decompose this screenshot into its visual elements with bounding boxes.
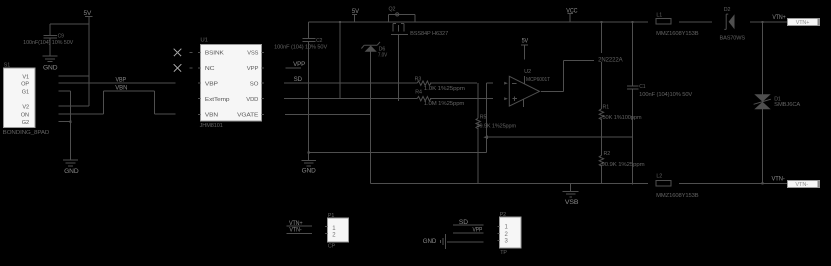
svg-text:50K 1%100ppm: 50K 1%100ppm <box>603 115 643 121</box>
svg-text:CP: CP <box>328 244 336 250</box>
svg-text:VTN-: VTN- <box>289 227 301 233</box>
svg-text:VBN: VBN <box>115 86 127 92</box>
svg-text:S1: S1 <box>4 62 10 68</box>
svg-text:1.0K 1%25ppm: 1.0K 1%25ppm <box>424 86 466 92</box>
svg-text:VBP: VBP <box>116 78 127 84</box>
svg-text:C9: C9 <box>58 34 65 40</box>
svg-text:MMZ1608Y153B: MMZ1608Y153B <box>656 31 699 37</box>
svg-text:BONDING_8PAD: BONDING_8PAD <box>3 130 50 136</box>
svg-text:BAS70WS: BAS70WS <box>720 36 746 42</box>
svg-text:JHM8101: JHM8101 <box>200 123 223 129</box>
svg-text:R1: R1 <box>603 105 610 111</box>
svg-text:5V: 5V <box>84 10 93 17</box>
svg-text:VPP: VPP <box>293 62 305 68</box>
svg-text:ON: ON <box>21 112 29 118</box>
svg-text:VBP: VBP <box>205 82 218 88</box>
svg-text:TP: TP <box>500 250 507 256</box>
svg-text:V1: V1 <box>22 74 29 80</box>
svg-text:R4: R4 <box>415 90 422 96</box>
svg-text:VCC: VCC <box>566 9 578 15</box>
svg-text:GND: GND <box>43 64 58 71</box>
svg-text:C1: C1 <box>639 84 646 90</box>
svg-text:NC: NC <box>205 66 215 72</box>
svg-text:P1: P1 <box>328 213 334 219</box>
svg-text:GND: GND <box>423 239 437 245</box>
svg-text:SD: SD <box>459 220 469 226</box>
svg-text:SO: SO <box>250 82 259 88</box>
svg-text:D2: D2 <box>724 7 731 13</box>
svg-text:SMBJ6CA: SMBJ6CA <box>774 102 801 108</box>
svg-text:OP: OP <box>21 81 29 87</box>
svg-text:Q2: Q2 <box>389 7 396 13</box>
svg-text:BSINK: BSINK <box>205 51 224 57</box>
svg-text:VTN+: VTN+ <box>289 221 303 227</box>
svg-text:G1: G1 <box>22 89 29 95</box>
svg-text:VSS: VSS <box>247 51 258 57</box>
svg-text:49.9K 1%25ppm: 49.9K 1%25ppm <box>477 123 517 129</box>
svg-text:VTN-: VTN- <box>772 177 785 183</box>
svg-text:U2: U2 <box>524 69 531 75</box>
svg-text:GND: GND <box>302 167 317 174</box>
svg-text:VBN: VBN <box>205 113 218 119</box>
svg-text:SD: SD <box>294 77 303 83</box>
svg-text:R3: R3 <box>415 77 422 83</box>
svg-text:C2: C2 <box>316 38 323 44</box>
svg-text:5V: 5V <box>352 9 359 15</box>
svg-text:5V: 5V <box>522 38 529 44</box>
svg-text:100nF (104)10% 50V: 100nF (104)10% 50V <box>639 92 693 98</box>
svg-text:VDD: VDD <box>246 97 258 103</box>
svg-text:ExtTemp: ExtTemp <box>205 97 230 103</box>
svg-text:2N2222A: 2N2222A <box>598 57 622 63</box>
svg-text:L2: L2 <box>656 174 662 180</box>
svg-text:1.0M 1%25ppm: 1.0M 1%25ppm <box>424 101 465 107</box>
svg-text:R2: R2 <box>604 151 611 157</box>
svg-text:D6: D6 <box>379 46 386 52</box>
svg-text:R5: R5 <box>480 114 487 120</box>
svg-text:VPP: VPP <box>247 66 259 72</box>
svg-text:P2: P2 <box>500 212 506 218</box>
svg-text:VTN+: VTN+ <box>772 15 786 21</box>
svg-text:U1: U1 <box>200 37 208 43</box>
svg-text:MCP6001T: MCP6001T <box>526 77 551 83</box>
svg-text:VSB: VSB <box>565 200 579 206</box>
svg-text:L1: L1 <box>656 13 662 19</box>
svg-text:7.0V: 7.0V <box>378 53 388 59</box>
svg-text:VTN-: VTN- <box>795 182 808 188</box>
svg-text:100nF(104) 10% 50V: 100nF(104) 10% 50V <box>23 40 74 46</box>
svg-text:VGATE: VGATE <box>237 113 259 119</box>
svg-text:VPP: VPP <box>473 227 483 233</box>
svg-text:BSS84P H6327: BSS84P H6327 <box>410 31 448 37</box>
svg-text:MMZ1608Y153B: MMZ1608Y153B <box>656 193 699 199</box>
svg-text:90.9K 1%25ppm: 90.9K 1%25ppm <box>602 162 646 168</box>
svg-text:V2: V2 <box>22 104 29 110</box>
svg-text:GND: GND <box>64 168 79 175</box>
svg-text:G2: G2 <box>22 120 29 126</box>
svg-text:VTN+: VTN+ <box>796 20 810 26</box>
svg-text:100nF (104) 10% 50V: 100nF (104) 10% 50V <box>274 44 328 50</box>
